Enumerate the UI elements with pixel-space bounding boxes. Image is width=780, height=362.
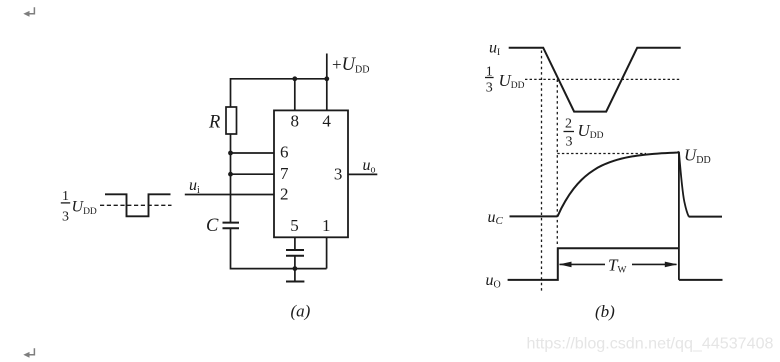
svg-text:C: C [206, 216, 219, 236]
svg-text:4: 4 [322, 112, 331, 131]
svg-text:UDD: UDD [499, 71, 525, 91]
svg-text:8: 8 [291, 112, 300, 131]
svg-text:2: 2 [565, 117, 572, 132]
svg-text:TW: TW [608, 255, 626, 275]
svg-text:UDD: UDD [684, 146, 711, 167]
svg-text:(a): (a) [291, 301, 311, 320]
svg-text:7: 7 [280, 164, 289, 183]
svg-text:3: 3 [334, 165, 343, 184]
svg-text:3: 3 [62, 209, 69, 224]
svg-text:https://blog.csdn.net/qq_44537: https://blog.csdn.net/qq_44537408 [527, 334, 774, 352]
svg-text:R: R [208, 113, 220, 133]
svg-text:uC: uC [488, 209, 504, 227]
svg-text:6: 6 [280, 143, 289, 162]
svg-text:ui: ui [189, 177, 200, 196]
svg-text:UDD: UDD [72, 199, 97, 217]
svg-text:3: 3 [566, 134, 573, 149]
svg-text:1: 1 [322, 216, 331, 235]
svg-text:5: 5 [290, 216, 299, 235]
svg-text:+UDD: +UDD [332, 55, 369, 76]
svg-text:3: 3 [486, 81, 493, 96]
svg-text:2: 2 [280, 185, 289, 204]
svg-text:1: 1 [62, 189, 69, 204]
svg-text:uO: uO [486, 272, 501, 291]
svg-text:uI: uI [489, 40, 500, 59]
svg-text:UDD: UDD [578, 121, 604, 141]
svg-text:(b): (b) [595, 302, 615, 321]
svg-text:uo: uo [363, 157, 376, 176]
